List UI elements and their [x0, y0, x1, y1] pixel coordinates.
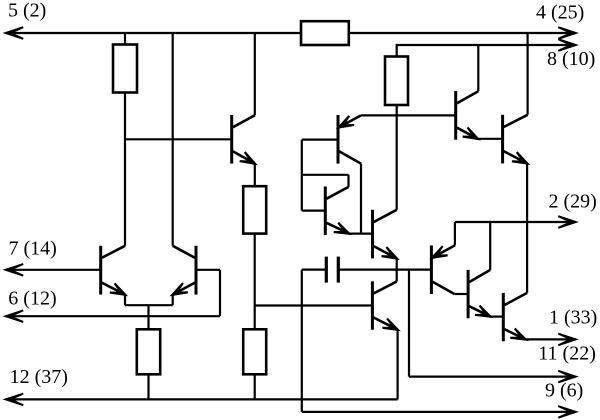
wire pin 12 ground rail: [6, 398, 398, 400]
svg-text:7 (14): 7 (14): [9, 237, 57, 259]
transistor Q2 base bar: [195, 246, 198, 295]
wire top rail left with pin-5 arrow: [6, 32, 301, 34]
wire Q9 collector up to pin-8 rail: [477, 45, 479, 91]
wire capacitor left lead: [302, 269, 327, 271]
transistor Q9 base bar: [454, 91, 457, 140]
wire Q11 collector up to pin-2 line: [489, 222, 491, 270]
transistor Q3 collector: [233, 115, 255, 127]
wire capacitor node down left column: [301, 270, 303, 412]
transistor Q10 emitter with arrow into base: [433, 245, 455, 257]
resistor R5 vertical middle: [243, 186, 266, 233]
wire Q2 base down to pin 6 line: [219, 270, 221, 316]
wire common emitter node down to R3: [147, 305, 149, 329]
transistor Q6 collector: [374, 210, 397, 222]
transistor Q11 emitter with arrow: [469, 306, 490, 316]
wire Q8 emitter down to ground rail corner: [397, 330, 399, 400]
wire R3 bottom to ground rail: [147, 374, 149, 399]
wire Q2 emitter to common node: [149, 304, 173, 306]
wire Q4 emitter to Q9 base: [361, 114, 456, 116]
wire pin 11 line with arrow: [409, 376, 576, 378]
transistor Q11 base bar: [467, 270, 470, 318]
resistor R1 vertical left: [113, 45, 137, 93]
transistor Q9 collector: [457, 91, 479, 103]
wire Q4 collector down to Q6 base line: [360, 164, 362, 234]
wire Q1 emitter to common node: [125, 304, 149, 306]
wire Q3 emitter down to R5: [254, 164, 256, 187]
transistor Q7 emitter with arrow: [504, 151, 527, 163]
wire Q7 collector up to top rail: [526, 33, 528, 115]
transistor Q8 base bar: [371, 281, 374, 329]
transistor Q10 base bar (pnp): [430, 245, 433, 294]
transistor Q3 emitter with arrow: [233, 151, 255, 163]
transistor Q7 collector: [504, 115, 528, 127]
wire R1 bottom down to Q1 collector: [124, 93, 126, 246]
resistor R2 vertical upper right: [385, 57, 408, 106]
transistor Q4 collector: [339, 151, 361, 163]
transistor Q1 base bar: [99, 246, 102, 295]
wire Q5 emitter to Q6 base: [349, 233, 373, 235]
svg-text:9 (6): 9 (6): [545, 380, 583, 402]
wire Q3 collector up to top rail: [254, 33, 256, 115]
wire bias node vertical: [301, 140, 303, 211]
transistor Q12 base bar: [502, 293, 505, 341]
transistor Q1 emitter with arrow: [102, 283, 125, 295]
wire pin 1 line with arrow: [526, 338, 576, 340]
transistor Q5 base bar: [324, 187, 327, 236]
transistor Q9 emitter with arrow: [457, 128, 478, 139]
wire R6 bottom to ground rail: [254, 374, 256, 399]
wire top rail right with pin-4 arrow: [349, 32, 576, 34]
transistor Q3 base bar: [230, 115, 233, 164]
svg-text:6 (12): 6 (12): [8, 287, 56, 309]
svg-text:2 (29): 2 (29): [549, 191, 597, 213]
transistor Q7 base bar: [501, 115, 504, 164]
svg-text:4 (25): 4 (25): [536, 2, 584, 24]
wire Q5 base: [302, 210, 326, 212]
transistor Q12 emitter with arrow: [504, 329, 525, 339]
svg-text:5 (2): 5 (2): [8, 0, 46, 22]
wire pin 7 to Q1 base: [6, 269, 101, 271]
wire Q5 collector loop horizontal: [302, 174, 349, 176]
svg-text:8 (10): 8 (10): [547, 48, 595, 70]
wire Q5 collector loop vertical: [347, 175, 349, 187]
wire capacitor right lead to Q10 base: [338, 269, 431, 271]
wire pin 9 line with arrow: [302, 411, 576, 413]
transistor Q4 emitter with arrow into base: [339, 115, 361, 127]
resistor horizontal top: [301, 21, 349, 45]
wire pin 2 line with arrow: [455, 221, 576, 223]
capacitor right plate: [337, 257, 340, 283]
transistor Q8 emitter with arrow: [374, 318, 398, 330]
wire second rail with pin-8 arrow: [397, 44, 576, 46]
transistor Q8 collector: [374, 282, 397, 294]
transistor Q12 collector: [504, 293, 527, 305]
wire R2 bottom down to Q6 collector: [396, 105, 398, 210]
wire rail corner down to resistor R2: [396, 44, 398, 57]
transistor Q2 collector: [173, 246, 195, 258]
wire R5 bottom down to R6 top: [254, 234, 256, 330]
wire pin 11 vertical from capacitor lead: [408, 270, 410, 377]
svg-text:1 (33): 1 (33): [549, 307, 597, 329]
svg-text:12 (37): 12 (37): [10, 366, 68, 388]
transistor Q5 collector: [326, 187, 348, 199]
transistor Q6 emitter with arrow: [374, 246, 397, 258]
wire Q4 base: [302, 139, 338, 141]
transistor Q1 collector: [102, 246, 125, 258]
transistor Q6 base bar: [371, 210, 374, 259]
wire top rail drop to R1: [124, 33, 126, 45]
svg-text:11 (22): 11 (22): [538, 343, 596, 365]
wire Q1 emitter down: [124, 295, 126, 306]
transistor Q4 base bar (pnp): [337, 115, 340, 164]
capacitor left plate: [325, 257, 328, 283]
wire Q11 emitter to Q12 base: [490, 316, 503, 318]
wire Q3 base from R1 column: [125, 138, 232, 140]
wire vertical from top rail to Q2 collector: [172, 33, 174, 246]
resistor R6 vertical lower middle: [243, 329, 266, 374]
resistor R3 vertical below diff pair: [137, 329, 160, 374]
transistor Q2 emitter with arrow: [173, 283, 195, 295]
wire Q2 emitter down: [172, 295, 174, 306]
wire Q9 emitter to Q7 base: [478, 138, 503, 140]
transistor Q10 collector: [433, 282, 455, 294]
wire Q10 collector to Q11 base: [454, 293, 468, 295]
transistor Q11 collector: [469, 270, 490, 282]
wire Q8 base from R5/R6 column: [255, 304, 373, 306]
wire Q7 emitter down through pin-2 node to Q12 collector: [526, 163, 528, 293]
wire Q10 emitter up to pin-2 line: [454, 222, 456, 245]
wire Q2 base stub right: [196, 269, 220, 271]
wire Q6 emitter down to Q8 collector: [396, 258, 398, 281]
wire pin 6 line: [6, 315, 220, 317]
transistor Q5 emitter with arrow: [326, 223, 349, 234]
